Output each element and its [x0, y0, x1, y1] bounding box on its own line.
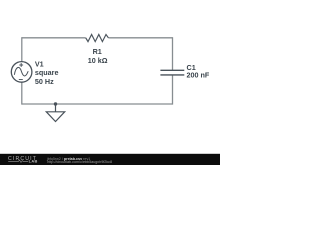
svg-text:200 nF: 200 nF	[187, 70, 210, 79]
resistor R1	[86, 35, 109, 42]
capacitor C1 top plate	[160, 69, 184, 71]
svg-text:50 Hz: 50 Hz	[35, 77, 54, 86]
wire right branch upper	[172, 37, 174, 70]
footer bar	[0, 154, 220, 165]
CircuitLab logo trace squiggle	[8, 160, 28, 163]
wire bottom rail	[22, 103, 173, 105]
wire right branch lower	[172, 75, 174, 105]
svg-text:LAB: LAB	[29, 159, 38, 164]
svg-text:square: square	[35, 68, 59, 77]
wire left branch upper	[21, 37, 23, 61]
wire left branch lower	[21, 82, 23, 104]
svg-text:R1: R1	[93, 47, 102, 56]
voltage source V1	[11, 62, 32, 83]
wire top rail right segment	[108, 37, 172, 39]
svg-text:10 kΩ: 10 kΩ	[88, 56, 108, 65]
capacitor C1 bottom plate	[160, 74, 184, 76]
svg-text:http://circuitlab.com/c/ebb5au: http://circuitlab.com/c/ebb5augxh9f2kc8	[47, 160, 112, 164]
junction node dot	[54, 102, 57, 105]
wire top rail left segment	[22, 37, 86, 39]
ground	[46, 104, 64, 122]
